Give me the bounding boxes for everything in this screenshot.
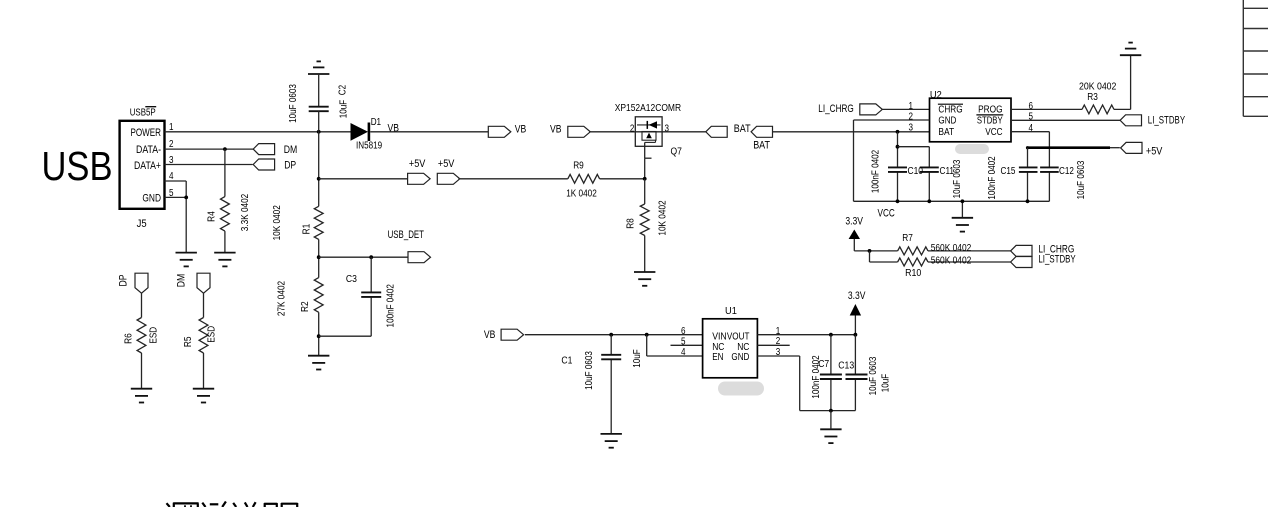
stem ground C7 (830, 411, 832, 430)
U2 pin name CHRG (938, 104, 963, 116)
overline over 5P (145, 106, 156, 108)
svg-text:10uF: 10uF (339, 100, 350, 119)
wire gate down (644, 158, 646, 179)
svg-text:2: 2 (909, 111, 914, 122)
label VB (550, 123, 562, 135)
svg-text:100nF 0402: 100nF 0402 (811, 355, 822, 399)
port +5V (1121, 142, 1142, 153)
refdes Q7 (671, 146, 683, 157)
value 10uF 0603 (C2) (288, 84, 299, 123)
capacitor C10 (888, 167, 907, 172)
svg-text:6: 6 (1029, 101, 1034, 112)
svg-text:USB_DET: USB_DET (388, 229, 425, 241)
junction DATA- / R4 (223, 147, 227, 151)
U2 pin name GND (938, 116, 956, 127)
ground R6 (131, 389, 152, 403)
svg-text:LI_STDBY: LI_STDBY (1038, 253, 1075, 265)
wire pin4 (165, 181, 187, 197)
pin number 5 (1029, 112, 1034, 123)
wire U2 pin2 (854, 119, 930, 121)
pin number 3 (909, 122, 914, 133)
ground R5 (193, 389, 214, 403)
wire U1 pin3 GND (757, 356, 799, 411)
IC U2 box (930, 98, 1012, 142)
+5V bold wire (1028, 146, 1120, 149)
junction R10 branch (868, 249, 872, 253)
port BAT (in) (706, 126, 727, 137)
refdes C15 (1001, 166, 1016, 177)
value IN5819 (356, 141, 382, 152)
svg-text:100nF 0402: 100nF 0402 (871, 150, 882, 194)
wire pin5 to ground (165, 197, 187, 252)
value 560K 0402 (R7) (931, 243, 972, 254)
svg-text:BAT: BAT (753, 140, 770, 152)
capacitor C2 (309, 107, 329, 112)
wire R10 to port (928, 261, 1011, 263)
junction C7 bottom (829, 409, 833, 413)
label LI_CHRG (1038, 244, 1074, 256)
pin number 4 (1029, 123, 1034, 134)
pin number 4 (681, 347, 686, 358)
svg-text:R2: R2 (300, 301, 311, 312)
wire through Q7 (635, 131, 662, 133)
rail U1 gnd (800, 410, 856, 412)
resistor R7 (898, 247, 928, 255)
refdes R2 (300, 301, 311, 312)
label LI_STDBY (1038, 253, 1075, 265)
value 100nF 0402 (C3) (385, 284, 396, 328)
Q7 body diode (637, 121, 661, 129)
wire R8 to ground (644, 236, 646, 273)
power 3.3V arrow (U1) (850, 304, 861, 335)
svg-text:Q7: Q7 (671, 146, 683, 157)
svg-text:R6: R6 (123, 333, 134, 344)
port DP (253, 159, 274, 170)
pin number 2 (909, 111, 914, 122)
refdes D1 (371, 117, 382, 128)
refdes U2 (930, 90, 942, 101)
port DM (down) (197, 273, 210, 293)
svg-text:D1: D1 (371, 117, 382, 128)
label +5V (438, 158, 455, 170)
pin number 2 (169, 139, 174, 150)
net label VB (388, 122, 400, 134)
wire R3 to ground riser (1114, 55, 1131, 109)
resistor R1 (314, 206, 323, 239)
port LI_STDBY (1120, 115, 1141, 126)
port VB (U1 in) (501, 329, 523, 340)
wire C3 bottom to R2 (319, 335, 372, 337)
U1 pin name VIN (712, 332, 727, 343)
svg-text:10uF: 10uF (632, 349, 643, 368)
svg-text:3.3V: 3.3V (848, 290, 866, 302)
value 10uF 0603 (C13) (868, 356, 879, 395)
svg-text:VB: VB (515, 123, 527, 135)
U2 pin name STDBY (976, 115, 1003, 127)
svg-text:POWER: POWER (131, 127, 162, 139)
svg-text:1: 1 (909, 101, 914, 112)
svg-text:CHRG: CHRG (938, 105, 962, 116)
resistor R9 (568, 174, 600, 183)
svg-text:GND: GND (731, 352, 749, 363)
svg-text:10K 0402: 10K 0402 (657, 200, 668, 236)
label USB_DET (388, 229, 425, 241)
wire POWER pin1 to D1 (165, 131, 351, 133)
port VB (in) (568, 126, 591, 137)
port +5V (out) (408, 173, 431, 184)
wire R10 branch (870, 251, 898, 262)
label XP152A12COMR (615, 103, 681, 114)
svg-text:1K 0402: 1K 0402 (566, 189, 597, 200)
svg-text:DM: DM (284, 144, 298, 156)
refdes J5 (137, 218, 147, 230)
wire R4 bottom (224, 231, 226, 253)
svg-text:10uF 0603: 10uF 0603 (1076, 160, 1087, 199)
U1 pin name EN (712, 352, 723, 363)
IC U1 box (703, 319, 758, 378)
svg-text:R10: R10 (905, 268, 922, 279)
value 10uF 0603 (C12) (1076, 160, 1087, 199)
wire U2 pin5 to LI_STDBY (1011, 119, 1120, 121)
resistor R3 (1082, 105, 1114, 114)
svg-text:USB5P: USB5P (130, 108, 156, 119)
ground R2/C3 (308, 356, 329, 370)
junction gate/R8 (643, 177, 647, 181)
value 1K 0402 (566, 189, 597, 200)
wire U2 pin6 to R3 (1011, 108, 1082, 110)
ground R8 (634, 272, 655, 286)
capacitor C11 (920, 167, 939, 172)
svg-text:3: 3 (665, 123, 670, 134)
svg-text:VB: VB (550, 123, 562, 135)
power 3.3V arrow (849, 230, 860, 251)
svg-text:10K 0402: 10K 0402 (272, 205, 283, 241)
svg-text:R1: R1 (302, 223, 313, 234)
svg-text:C3: C3 (346, 274, 357, 285)
wire VB port to Q7 (589, 131, 635, 133)
svg-text:GND: GND (938, 116, 956, 127)
svg-text:R8: R8 (626, 218, 637, 229)
port LI_CHRG (pullup) (1011, 245, 1032, 256)
port VB (out) (488, 126, 511, 137)
value 100nF 0402 (C7) (811, 355, 822, 399)
label USB5P (130, 108, 156, 119)
U1 pin name NC (right) (737, 342, 749, 353)
resistor R2 (314, 278, 323, 313)
svg-text:VB: VB (388, 122, 400, 134)
svg-text:DP: DP (117, 275, 129, 287)
svg-text:GND: GND (142, 193, 161, 205)
connector J5 box (120, 121, 165, 209)
wire USB_DET (319, 256, 408, 258)
stub pin2 (757, 344, 789, 346)
svg-text:R9: R9 (573, 161, 584, 172)
svg-text:C13: C13 (838, 361, 854, 372)
resistor R4 (221, 197, 230, 232)
resistor R6 (137, 318, 146, 354)
resistor R8 (640, 204, 649, 236)
value 20K 0402 (1079, 82, 1117, 93)
value ESD (R6) (148, 327, 159, 344)
svg-text:J5: J5 (137, 218, 147, 230)
wire +5V to R9 (458, 178, 567, 180)
wire C13 column (854, 335, 856, 411)
junction R2/C3 bottom (317, 334, 321, 338)
refdes R4 (206, 211, 217, 222)
junction 3.3V / pin1 (854, 333, 858, 337)
svg-text:C10: C10 (908, 166, 924, 177)
label LI_STDBY (1148, 114, 1185, 126)
junction BAT/C10 (896, 130, 900, 134)
pin number 6 (681, 326, 686, 337)
wire D1 to VB port (370, 131, 488, 133)
wire R5 to ground (203, 353, 205, 389)
svg-text:IN5819: IN5819 (356, 141, 382, 152)
value 10uF (C2) (339, 100, 350, 119)
wire C11 branch (898, 147, 930, 202)
wire R9 to gate node (600, 178, 645, 180)
svg-text:10uF 0603: 10uF 0603 (952, 159, 963, 198)
wire 3.3V to R7 (854, 250, 897, 252)
pin number 5 (169, 188, 174, 199)
svg-text:C2: C2 (338, 84, 349, 95)
wire to U2 pin 1 (882, 108, 930, 110)
svg-text:6: 6 (681, 326, 686, 337)
svg-text:2: 2 (630, 123, 635, 134)
wire R4 top (224, 149, 226, 197)
gate tick (645, 157, 652, 159)
junction pin5 (184, 196, 188, 200)
ground rail stem (961, 199, 965, 217)
port USB_DET (408, 252, 431, 263)
value 10K 0402 (R1) (272, 205, 283, 241)
refdes C3 (346, 274, 357, 285)
svg-text:XP152A12COMR: XP152A12COMR (615, 103, 681, 114)
wire to R8 (644, 179, 646, 204)
pin label GND (142, 193, 161, 205)
ground above C2 (308, 61, 329, 74)
value 27K 0402 (277, 281, 288, 317)
U2 pin name BAT (938, 127, 954, 138)
svg-text:+5V: +5V (409, 158, 426, 170)
capacitor C7 (820, 375, 842, 380)
wire R1 column from main line (318, 132, 320, 207)
erased blob 2 (959, 144, 961, 146)
+5V feed corner (1026, 146, 1029, 149)
wire C7 column (830, 335, 832, 411)
svg-text:R3: R3 (1087, 92, 1098, 103)
ground top right (1120, 43, 1141, 56)
pin number 2 (776, 336, 781, 347)
junction C1 (609, 333, 613, 337)
resistor R5 (199, 318, 208, 354)
junction C11 branch (896, 145, 900, 149)
label VB (484, 329, 496, 341)
Q7 gate lead (645, 140, 656, 158)
pin number 1 (776, 326, 781, 337)
svg-text:R4: R4 (206, 211, 217, 222)
wire U2 pin4 VCC (1011, 132, 1049, 202)
junction C3 (369, 255, 373, 259)
svg-text:10uF 0603: 10uF 0603 (584, 351, 595, 390)
svg-text:USB: USB (42, 143, 113, 189)
svg-text:DATA+: DATA+ (134, 160, 161, 172)
label VCC (878, 208, 895, 220)
svg-text:R7: R7 (902, 233, 913, 244)
label BAT (753, 140, 770, 152)
wire R7 to port (928, 250, 1011, 252)
svg-text:LI_STDBY: LI_STDBY (1148, 114, 1185, 126)
pin number 5 (681, 337, 686, 348)
label LI_CHRG (818, 103, 854, 115)
svg-text:4: 4 (681, 347, 686, 358)
refdes R8 (626, 218, 637, 229)
junction +5V branch (317, 177, 321, 181)
svg-text:3: 3 (909, 122, 914, 133)
pin number 2 (630, 123, 635, 134)
value 10K 0402 (R8) (657, 200, 668, 236)
wire C1 column (610, 335, 612, 434)
title block table (top-right, cropped) (1243, 0, 1268, 116)
wire R1 to R2 (318, 239, 320, 277)
power 3.3V label (845, 216, 863, 228)
port LI_STDBY (pullup) (1011, 257, 1032, 268)
svg-text:560K 0402: 560K 0402 (931, 243, 972, 254)
wire GND down (853, 120, 855, 201)
wire C10 column (897, 132, 899, 202)
wire DM to R5 (203, 293, 205, 317)
rail junction C10 (896, 199, 900, 203)
wire VB to U1 (525, 334, 703, 336)
wire C2 bottom (318, 111, 320, 132)
svg-text:5: 5 (681, 337, 686, 348)
svg-text:VCC: VCC (985, 127, 1002, 138)
svg-text:PROG: PROG (978, 105, 1003, 116)
svg-text:U1: U1 (725, 306, 737, 317)
svg-text:10uF 0603: 10uF 0603 (868, 356, 879, 395)
wire R6 to ground (141, 353, 143, 389)
svg-text:560K 0402: 560K 0402 (931, 255, 972, 266)
value ESD (R5) (207, 326, 218, 343)
ground rail (952, 218, 973, 232)
svg-text:10uF: 10uF (881, 374, 892, 393)
label VB (515, 123, 527, 135)
erased refdes blob (955, 144, 989, 154)
diode D1 (351, 123, 369, 142)
refdes R7 (902, 233, 913, 244)
value 100nF 0402 (C10) (871, 150, 882, 194)
refdes C2 (338, 84, 349, 95)
label DP (117, 275, 129, 287)
ground R4 (214, 253, 235, 267)
value 100nF 0402 (C15) (987, 156, 998, 200)
junction C7 top (829, 333, 833, 337)
cropped heading text (bottom) (167, 502, 298, 507)
refdes C11 (940, 166, 955, 177)
refdes R1 (302, 223, 313, 234)
pin number 4 (169, 171, 174, 182)
erased refdes blob U1 (718, 382, 764, 396)
U1 pin name NC (712, 342, 724, 353)
rail junction C11 (927, 199, 931, 203)
label +5V (409, 158, 426, 170)
refdes C13 (838, 361, 854, 372)
label +5V (1146, 145, 1163, 157)
value 560K 0402 (R10) (931, 255, 972, 266)
junction at C2/R1 column (317, 130, 321, 134)
svg-text:10uF 0603: 10uF 0603 (288, 84, 299, 123)
U1 pin name VOUT (727, 332, 750, 343)
svg-text:100nF 0402: 100nF 0402 (987, 156, 998, 200)
svg-text:DATA-: DATA- (136, 144, 161, 156)
resistor R10 (898, 258, 928, 266)
label DP (284, 160, 296, 172)
wire R2 bottom (318, 312, 320, 355)
label DM (284, 144, 298, 156)
refdes R9 (573, 161, 584, 172)
pin label DATA+ (134, 160, 161, 172)
transistor Q7 box (635, 117, 662, 147)
value 10uF (C13) (881, 374, 892, 393)
pin label DATA- (136, 144, 161, 156)
refdes R6 (123, 333, 134, 344)
junction EN (645, 333, 649, 337)
svg-text:U2: U2 (930, 90, 942, 101)
pin number 1 (169, 122, 174, 133)
wire C15 column (1026, 148, 1030, 204)
label DM (175, 274, 187, 288)
port BAT (out) (751, 126, 772, 137)
svg-text:+5V: +5V (438, 158, 455, 170)
capacitor C3 (361, 292, 381, 297)
svg-text:R5: R5 (183, 336, 194, 347)
refdes R3 (1087, 92, 1098, 103)
svg-text:ESD: ESD (148, 327, 159, 344)
U2 pin name PROG (978, 105, 1003, 116)
port +5V (in) (437, 173, 460, 184)
capacitor C15 (1019, 167, 1038, 172)
U1 pin name GND (731, 352, 749, 363)
port DM (253, 144, 274, 155)
capacitor C13 (846, 375, 868, 380)
wire C3 column (370, 257, 372, 336)
wire to +5V port (319, 178, 408, 180)
wire DATA+ pin3 to DP port (165, 164, 253, 166)
power 3.3V label (U1) (848, 290, 866, 302)
pin label POWER (131, 127, 162, 139)
svg-text:3.3K 0402: 3.3K 0402 (240, 193, 251, 231)
U2 pin name VCC (985, 127, 1002, 138)
svg-text:BAT: BAT (734, 123, 751, 135)
wire EN branch (647, 335, 703, 356)
wire BAT to U2 (773, 131, 930, 133)
pin number 3 (169, 155, 174, 166)
svg-text:C1: C1 (561, 356, 572, 367)
refdes C12 (1059, 166, 1074, 177)
label BAT (734, 123, 751, 135)
port LI_CHRG (860, 104, 883, 115)
svg-text:STDBY: STDBY (977, 116, 1003, 127)
refdes C7 (818, 359, 829, 370)
svg-text:27K 0402: 27K 0402 (277, 281, 288, 317)
svg-text:3.3V: 3.3V (845, 216, 863, 228)
port DP (down) (135, 273, 148, 293)
wire U1 pin1 (757, 334, 855, 336)
capacitor C1 (601, 355, 621, 360)
svg-text:LI_CHRG: LI_CHRG (818, 103, 854, 115)
svg-text:EN: EN (712, 352, 723, 363)
svg-text:VCC: VCC (878, 208, 895, 220)
